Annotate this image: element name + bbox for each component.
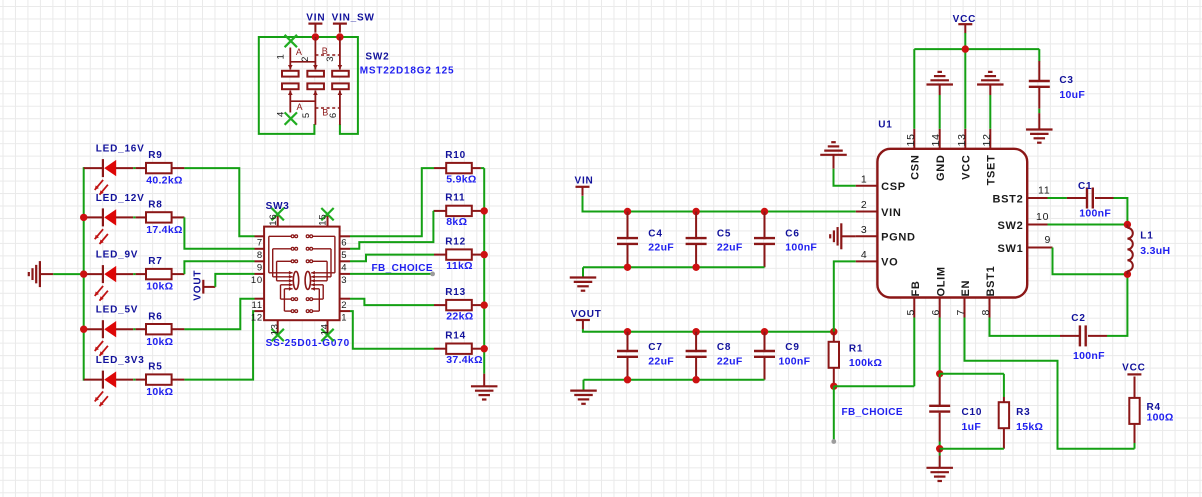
ground VIN caps	[570, 278, 597, 291]
pin 12 U1	[981, 133, 993, 146]
svg-text:2: 2	[341, 300, 347, 311]
svg-text:8kΩ: 8kΩ	[446, 216, 467, 228]
svg-text:14: 14	[319, 323, 330, 335]
resistor R6	[146, 324, 184, 334]
node VOUT left	[192, 270, 203, 301]
resistor R3	[999, 397, 1009, 449]
svg-text:12: 12	[251, 312, 263, 323]
resistor R4	[1129, 377, 1139, 449]
pin 14 SW3 stub	[327, 320, 329, 333]
svg-text:1: 1	[275, 53, 286, 59]
svg-text:8: 8	[980, 309, 992, 316]
pin 14 U1 stub	[939, 129, 941, 149]
svg-text:4: 4	[341, 263, 347, 274]
ground LED bus	[29, 261, 53, 287]
svg-text:4: 4	[861, 249, 868, 261]
svg-text:VOUT: VOUT	[571, 309, 602, 320]
svg-text:22uF: 22uF	[648, 355, 674, 367]
value C2 100nF	[1073, 350, 1105, 362]
svg-text:2: 2	[861, 199, 868, 211]
pin 1 U1 stub	[856, 185, 878, 187]
svg-text:R7: R7	[148, 256, 162, 267]
capacitor C8	[686, 332, 707, 380]
svg-text:EN: EN	[960, 280, 972, 297]
pin 9 SW3	[257, 263, 263, 274]
svg-text:100nF: 100nF	[1073, 350, 1105, 362]
pin 6 SW3	[341, 238, 347, 249]
svg-text:R11: R11	[445, 193, 465, 204]
designator R5	[148, 362, 162, 373]
svg-text:9: 9	[257, 263, 263, 274]
wire R9 to pin7	[184, 168, 254, 236]
pin name FB	[910, 280, 922, 296]
no-connect pin 1 SW2	[285, 35, 297, 47]
capacitor C2	[1080, 325, 1107, 346]
pin 11 SW3 stub	[255, 298, 265, 300]
value C4	[648, 241, 674, 253]
pin 3 SW3	[341, 275, 347, 286]
value R8 17.4kohm	[146, 224, 183, 236]
pin 13 U1 stub	[964, 129, 966, 149]
svg-text:10kΩ: 10kΩ	[146, 336, 173, 348]
pin 5 SW3	[341, 250, 347, 261]
pin 5 U1 stub	[913, 298, 915, 318]
designator C2	[1071, 313, 1085, 324]
svg-text:C9: C9	[785, 342, 799, 353]
pin 9 SW3 stub	[255, 260, 265, 262]
designator R8	[148, 200, 162, 211]
pin 11 U1 stub	[1027, 197, 1047, 199]
pin name OLIM	[935, 266, 947, 296]
svg-text:37.4kΩ: 37.4kΩ	[446, 354, 483, 366]
designator C5	[717, 228, 731, 239]
capacitor C7	[617, 332, 638, 380]
svg-text:10: 10	[1036, 211, 1049, 223]
LED LED_16V	[84, 159, 146, 195]
svg-text:7: 7	[257, 238, 263, 249]
pin 5 SW2	[301, 112, 312, 118]
designator R11	[445, 193, 465, 204]
pin 7 U1	[955, 309, 967, 316]
svg-text:7: 7	[955, 309, 967, 316]
pin 6 SW2	[328, 112, 339, 118]
junction VIN c0	[624, 208, 631, 215]
no-connect pin15	[321, 208, 333, 220]
svg-text:R8: R8	[148, 200, 162, 211]
designator C3	[1059, 75, 1073, 86]
wire BST1	[990, 318, 1080, 336]
svg-text:17.4kΩ: 17.4kΩ	[146, 224, 183, 236]
pin 8 SW3 stub	[255, 248, 265, 250]
svg-text:10kΩ: 10kΩ	[146, 386, 173, 398]
svg-text:A: A	[296, 47, 303, 57]
svg-text:LED_12V: LED_12V	[96, 193, 145, 204]
svg-text:R1: R1	[849, 344, 863, 355]
switch SW2 symbol	[282, 37, 349, 125]
pin 5 SW3 stub	[340, 248, 350, 250]
resistor R11	[434, 206, 484, 216]
svg-text:12: 12	[981, 133, 993, 146]
wire VOUT	[583, 329, 834, 332]
pin 9 U1	[1045, 234, 1052, 246]
value R10	[446, 173, 476, 185]
pin 4 U1	[861, 249, 868, 261]
value R12	[446, 260, 473, 272]
pin 2 U1 stub	[856, 211, 878, 213]
svg-text:L1: L1	[1140, 231, 1153, 242]
svg-text:100Ω: 100Ω	[1147, 412, 1174, 424]
svg-text:VOUT: VOUT	[192, 270, 203, 301]
wire R5 to pin12	[184, 311, 254, 380]
wire C1 to SW2 node	[1114, 198, 1128, 225]
junction c8 bottom	[692, 376, 699, 383]
svg-text:LED_5V: LED_5V	[96, 305, 139, 316]
wire VOUT to pin10	[215, 274, 254, 287]
pin 13 SW3	[270, 323, 281, 335]
svg-text:CSP: CSP	[881, 181, 906, 193]
pin 15 U1	[905, 133, 917, 146]
svg-text:10kΩ: 10kΩ	[146, 281, 173, 293]
junction C10 bottom	[936, 445, 943, 452]
capacitor C3	[1029, 61, 1050, 129]
resistor R13	[434, 300, 484, 310]
svg-text:SW1: SW1	[997, 243, 1023, 255]
ground above GND pin	[926, 72, 953, 95]
pin name VIN	[881, 207, 901, 219]
svg-text:11: 11	[252, 300, 263, 311]
svg-text:6: 6	[930, 309, 942, 316]
pin name SW2	[997, 220, 1023, 232]
svg-text:B: B	[322, 46, 329, 56]
value R7 10kohm	[146, 281, 173, 293]
svg-text:6: 6	[341, 238, 347, 249]
designator R13	[445, 287, 466, 298]
wire LED bus	[83, 167, 85, 381]
pin name PGND	[881, 232, 916, 244]
svg-text:R12: R12	[445, 236, 466, 247]
pin 6 U1 stub	[939, 298, 941, 318]
junction SW1 node	[1124, 271, 1131, 278]
wire R8 to pin8	[184, 217, 254, 248]
label LED_16V	[96, 144, 145, 155]
svg-text:22uF: 22uF	[717, 355, 743, 367]
designator R12	[445, 236, 466, 247]
wire R3 bottom	[940, 448, 1004, 450]
designator L1	[1140, 231, 1153, 242]
pin 2 SW3 stub	[340, 298, 350, 300]
svg-text:C10: C10	[962, 407, 983, 418]
svg-text:14: 14	[930, 133, 942, 146]
svg-text:2: 2	[300, 56, 311, 62]
pin 1 SW3 stub	[340, 310, 350, 312]
no-connect pin16	[272, 208, 284, 220]
resistor R12	[434, 249, 484, 259]
svg-text:9: 9	[1045, 234, 1052, 246]
svg-text:VIN_SW: VIN_SW	[332, 13, 375, 24]
switch SW3 body	[264, 227, 340, 321]
pin 4 SW3 stub	[340, 260, 350, 262]
wire SW3 to R12	[350, 255, 434, 262]
value R13	[446, 310, 473, 322]
value C1 100nF	[1079, 207, 1111, 219]
wire VO pin	[834, 261, 856, 331]
wire EN	[965, 318, 1135, 449]
svg-text:VCC: VCC	[1122, 362, 1146, 373]
junction c5 bottom	[692, 264, 699, 271]
svg-text:R3: R3	[1016, 407, 1030, 418]
svg-text:100nF: 100nF	[785, 241, 817, 253]
pin 3 U1 stub	[856, 235, 878, 237]
pin 12 SW3	[251, 312, 263, 323]
pin 1 U1	[861, 173, 868, 185]
svg-text:SW2: SW2	[997, 220, 1023, 232]
value C3 10uF	[1059, 89, 1085, 101]
pin 1 SW3	[341, 312, 347, 323]
value R1 100k	[849, 357, 882, 369]
designator C9	[785, 342, 799, 353]
svg-text:8: 8	[257, 250, 263, 261]
svg-text:100nF: 100nF	[779, 355, 811, 367]
pin 7 SW3	[257, 238, 263, 249]
pin 11 SW3	[252, 300, 263, 311]
svg-text:5: 5	[905, 309, 917, 316]
value C6	[785, 241, 817, 253]
svg-text:LED_9V: LED_9V	[96, 250, 139, 261]
junction bus LED_9V	[80, 270, 87, 277]
pin 8 U1 stub	[989, 298, 991, 318]
svg-text:C3: C3	[1059, 75, 1073, 86]
pin 12 U1 stub	[989, 129, 991, 149]
svg-text:22uF: 22uF	[648, 241, 674, 253]
svg-text:FB: FB	[910, 280, 922, 296]
resistor R7	[146, 269, 184, 279]
wire OLIM	[939, 318, 941, 374]
pin 2 SW3	[341, 300, 347, 311]
junction c4 bottom	[624, 264, 631, 271]
svg-text:BST1: BST1	[985, 266, 997, 297]
label LED_5V	[96, 305, 139, 316]
svg-text:16: 16	[268, 214, 279, 226]
no-connect pin 4 SW2	[285, 112, 297, 124]
svg-text:3: 3	[325, 56, 336, 62]
junction R bus 348.7	[481, 345, 488, 352]
pin 1 SW2	[275, 53, 286, 59]
svg-text:4: 4	[275, 111, 286, 117]
svg-text:1: 1	[861, 173, 868, 185]
junction VIN	[312, 33, 319, 40]
pin 3 SW2	[325, 56, 336, 62]
svg-text:C5: C5	[717, 228, 731, 239]
svg-text:GND: GND	[935, 155, 947, 182]
switch SW3 internals	[269, 235, 335, 313]
pin 3 SW3 stub	[340, 273, 350, 275]
junction VCC top	[962, 45, 969, 52]
resistor R10	[434, 163, 484, 173]
svg-text:SW2: SW2	[365, 52, 389, 63]
wire VIN left	[583, 196, 856, 212]
svg-text:R10: R10	[445, 150, 466, 161]
designator R4	[1147, 402, 1161, 413]
value R5 10kohm	[146, 386, 173, 398]
svg-text:LED_16V: LED_16V	[96, 144, 145, 155]
pin 13 SW3 stub	[277, 320, 279, 333]
node VCC top	[953, 14, 977, 25]
pin 4 U1 stub	[856, 260, 878, 262]
pin name GND	[935, 155, 947, 182]
no-connect pin13	[272, 329, 284, 341]
pin 16 SW3 stub	[277, 214, 279, 227]
LED LED_9V	[84, 265, 146, 301]
value C9	[779, 355, 811, 367]
wire ground to bus	[53, 273, 83, 275]
designator C10	[962, 407, 983, 418]
value R11	[446, 216, 467, 228]
junction VOUT 3	[830, 328, 837, 335]
ground CSP	[820, 142, 847, 169]
svg-text:13: 13	[956, 133, 968, 146]
junction bus LED_5V	[80, 326, 87, 333]
value R3 15k	[1016, 421, 1043, 433]
pin 4 SW2	[275, 111, 286, 117]
junction R bus 305.1	[481, 301, 488, 308]
node VIN	[306, 13, 325, 24]
svg-text:OLIM: OLIM	[935, 266, 947, 296]
capacitor C6	[754, 212, 775, 268]
designator C7	[648, 342, 662, 353]
value C5	[717, 241, 743, 253]
capacitor C1	[1087, 188, 1114, 209]
wire OLIM to R3	[940, 374, 1004, 397]
svg-text:R6: R6	[148, 311, 162, 322]
pin name BST1	[985, 266, 997, 297]
ground PGND	[830, 223, 856, 249]
designator R1	[849, 344, 863, 355]
ground C10	[926, 449, 953, 481]
svg-text:C1: C1	[1078, 181, 1092, 192]
designator C1	[1078, 181, 1092, 192]
ground above TSET pin	[977, 72, 1004, 95]
pin 15 SW3	[318, 214, 329, 226]
net flag VCC right	[1127, 373, 1141, 375]
junction VIN c1	[692, 208, 699, 215]
wire C2 to SW node	[1107, 274, 1127, 336]
wire SW3 to R11	[350, 211, 434, 249]
pin 11 U1	[1038, 185, 1051, 197]
junction bus LED_12V	[80, 214, 87, 221]
svg-text:MST22D18G2 125: MST22D18G2 125	[360, 66, 455, 77]
dangling node FB_CHOICE	[831, 439, 836, 444]
pin 14 U1	[930, 133, 942, 146]
pin 6 SW3 stub	[340, 235, 350, 237]
ground R bus	[471, 374, 498, 400]
label LED_3V3	[96, 355, 145, 366]
pin 6 U1	[930, 309, 942, 316]
node FB_CHOICE	[842, 407, 903, 418]
value R9 40.2kohm	[146, 175, 183, 187]
svg-text:SS-25D01-G070: SS-25D01-G070	[266, 338, 350, 349]
pin 8 SW3	[257, 250, 263, 261]
pin name TSET	[986, 155, 998, 186]
svg-text:U1: U1	[878, 120, 892, 131]
designator R9	[148, 150, 162, 161]
svg-text:22uF: 22uF	[717, 241, 743, 253]
resistor R9	[146, 163, 184, 173]
wire SW3 to R14	[350, 311, 434, 349]
label LED_9V	[96, 250, 139, 261]
designator R7	[148, 256, 162, 267]
junction R1 bottom	[830, 383, 837, 390]
junction R bus 210.9	[481, 207, 488, 214]
svg-text:3.3uH: 3.3uH	[1140, 245, 1170, 257]
svg-text:CSN: CSN	[910, 155, 922, 180]
value R4 100	[1147, 412, 1174, 424]
designator SW3	[266, 201, 290, 212]
wire FB	[834, 318, 915, 387]
resistor R1	[829, 332, 839, 387]
capacitor C10	[929, 374, 950, 449]
capacitor C9	[754, 332, 775, 380]
pin name EN	[960, 280, 972, 297]
svg-text:PGND: PGND	[881, 232, 916, 244]
svg-text:5: 5	[301, 112, 312, 118]
dangling node FB_CHOICE left	[430, 272, 435, 277]
value C8	[717, 355, 743, 367]
svg-text:C7: C7	[648, 342, 662, 353]
wire R6 to pin11	[184, 299, 254, 330]
svg-text:1: 1	[341, 312, 347, 323]
node VIN_SW	[332, 13, 375, 24]
designator C4	[648, 228, 662, 239]
resistor R8	[146, 212, 184, 222]
pin 3 U1	[861, 224, 868, 236]
capacitor C5	[686, 212, 707, 268]
pin 2 SW2	[300, 56, 311, 62]
junction R bus 254.6	[481, 251, 488, 258]
node VIN left	[575, 176, 594, 187]
svg-text:R9: R9	[148, 150, 162, 161]
designator U1	[878, 120, 892, 131]
pin 8 U1	[980, 309, 992, 316]
svg-text:SW3: SW3	[266, 201, 290, 212]
designator SW2	[365, 52, 389, 63]
svg-text:A: A	[297, 102, 304, 112]
value C10 1uF	[962, 421, 982, 433]
junction c7 bottom	[624, 376, 631, 383]
designator R14	[445, 331, 466, 342]
svg-text:VCC: VCC	[961, 155, 973, 180]
svg-text:1uF: 1uF	[962, 421, 982, 433]
wire SW3 to R10	[350, 168, 434, 236]
svg-text:R5: R5	[148, 362, 162, 373]
op-amp U1 body	[877, 149, 1027, 298]
junction VOUT 1	[692, 328, 699, 335]
node VCC right	[1122, 362, 1146, 373]
pin 14 SW3	[319, 323, 330, 335]
label LED_12V	[96, 193, 145, 204]
wire SW1 pin	[1053, 248, 1128, 275]
capacitor C4	[617, 212, 638, 268]
pin 10 SW3 stub	[255, 273, 265, 275]
svg-text:C6: C6	[785, 228, 799, 239]
svg-text:C2: C2	[1071, 313, 1085, 324]
value SS-25D01-G070	[266, 338, 350, 349]
pin 10 U1	[1036, 211, 1049, 223]
wire SW3 to R13	[350, 299, 434, 305]
pin name SW1	[997, 243, 1023, 255]
svg-text:FB_CHOICE: FB_CHOICE	[372, 263, 433, 274]
wire FB_CHOICE left	[350, 273, 433, 275]
wire VOUT caps gnd	[584, 380, 765, 391]
